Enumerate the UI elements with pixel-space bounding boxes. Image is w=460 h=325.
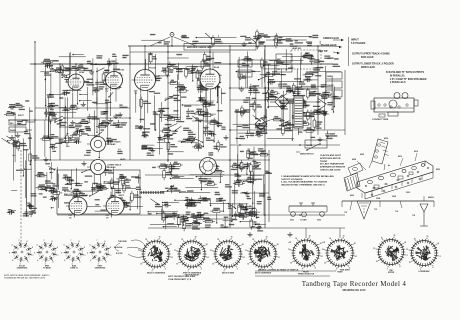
svg-text:22: 22 [354,243,356,245]
wire: dashed head bus [20,150,22,248]
tube V6 (EM71) [103,195,125,220]
wire: wafer stub 2 [339,228,341,238]
svg-text:CHECK LINE CORD: CHECK LINE CORD [320,170,341,172]
svg-text:6: 6 [64,245,65,247]
svg-text:712: 712 [374,209,377,211]
svg-text:RED TIP: RED TIP [318,50,328,53]
switch S1a [18,113,70,123]
ground 2 [108,118,113,123]
svg-text:BIAS OSC: BIAS OSC [64,193,74,196]
svg-text:7: 7 [387,268,388,270]
svg-text:5 K POLDER: 5 K POLDER [351,42,366,45]
svg-text:200A: 200A [376,197,381,200]
junction 10 [317,45,319,47]
svg-text:P2 BASE: P2 BASE [43,267,51,270]
lead black [321,44,342,48]
wire: V1 cath [72,93,74,118]
svg-text:1: 1 [244,257,245,259]
svg-text:1: 1 [111,255,112,257]
rotary switch wafer TRK [373,235,408,274]
junction 20 [299,214,301,216]
svg-text:19: 19 [159,236,161,238]
relay box 2 [276,64,292,72]
note block center [281,175,334,186]
svg-text:22: 22 [206,244,208,246]
junction 24 [264,87,266,89]
left lower network [35,162,63,209]
wire: v x=230 [229,46,231,228]
stage V1-V2 network [40,52,129,161]
wire: rail y=145 right [230,144,340,146]
ground 5 [43,157,48,162]
svg-text:1. MEASUREMENTS MADE WITH TEN: 1. MEASUREMENTS MADE WITH TEN INSTALLING [281,175,334,178]
svg-text:HEAD: HEAD [120,158,126,161]
svg-text:+15: +15 [322,242,325,244]
input jack J1 [9,120,35,125]
svg-text:1: 1 [322,256,323,258]
svg-text:AFERNATE AT REMOVE: AFERNATE AT REMOVE [320,166,346,169]
svg-text:13: 13 [245,250,247,252]
input jack J2 [9,127,32,132]
wire: rail y=130 [230,129,345,131]
wire: wafer stub 1 [305,228,307,238]
svg-text:10: 10 [409,262,411,264]
wire: rail y=88 right [230,87,318,89]
wafer small marks [288,242,325,244]
svg-text:MAGN.: MAGN. [428,196,434,199]
svg-text:2: 2 [106,262,107,264]
svg-text:TRUST: TRUST [320,161,328,163]
rotary switch wafer DECK UNDERSIDE [245,236,280,274]
svg-text:200C: 200C [406,192,411,194]
svg-text:718: 718 [412,215,415,217]
svg-text:4520: 4520 [436,168,440,171]
wire: rail y=228 [148,227,345,229]
ground 3 [138,125,143,130]
junction 3 [129,63,131,65]
svg-text:7: 7 [97,240,98,242]
junction 12 [167,159,169,161]
svg-text:SELEN: SELEN [306,145,313,147]
svg-text:10: 10 [324,262,326,264]
wire: left tall vertical [34,41,36,214]
svg-text:B.COM: B.COM [116,253,123,255]
junction 9 [264,45,266,47]
wire: v x=318 [317,46,319,135]
svg-text:13: 13 [373,248,375,250]
svg-text:6: 6 [90,245,91,247]
svg-text:9: 9 [84,247,85,249]
svg-text:2: 2 [53,262,54,264]
junction 13 [229,159,231,161]
svg-text:UNDERSIDE: UNDERSIDE [17,268,28,270]
ground 8 [223,135,228,140]
ground 11 [317,137,322,142]
svg-text:10: 10 [247,263,249,265]
svg-text:Tandberg Tape Recorder Model 4: Tandberg Tape Recorder Model 4 [302,280,407,288]
ground 12 [247,232,252,237]
wire: v x=60 [59,64,61,160]
svg-text:2. ALL VOLTAGES MEASURED TO CH: 2. ALL VOLTAGES MEASURED TO CHASSIS [281,181,327,184]
svg-text:22: 22 [242,244,244,246]
junction 5 [229,63,231,65]
junction 25 [239,144,241,146]
rotary switch wafer SELECT UNDERSIDE [138,236,173,274]
junction 11 [129,117,131,119]
svg-text:1: 1 [407,255,408,257]
svg-text:22: 22 [404,242,406,244]
relay box 5 [326,90,342,97]
ground 1 [70,120,75,125]
svg-text:MIC: MIC [10,123,14,125]
svg-text:110/220: 110/220 [327,85,333,87]
junction 2 [95,63,97,65]
svg-text:16: 16 [295,238,297,240]
relay box 1 [276,54,292,62]
svg-text:UNDERSIDE: UNDERSIDE [95,268,106,270]
svg-text:2001: 2001 [290,220,294,222]
amplifier caption strip [184,44,256,51]
svg-text:1: 1 [440,256,441,258]
wire: osc box [57,170,140,214]
svg-text:MAINS: MAINS [327,75,334,78]
svg-text:PB HEAD: PB HEAD [107,166,116,169]
svg-text:4516: 4516 [414,150,418,153]
svg-text:13: 13 [322,249,324,251]
svg-text:9: 9 [32,247,33,249]
svg-text:1: 1 [33,255,34,257]
wire: rect links [255,102,294,124]
rotary switch wafer DECK B VIEW [210,236,245,274]
ground 7 [157,135,162,140]
svg-text:DRAWING NO 2210: DRAWING NO 2210 [343,289,366,292]
svg-text:HEAD SW.: HEAD SW. [292,47,302,50]
svg-text:+15: +15 [288,242,291,244]
rotary switch wafer FRONT [288,235,323,275]
wire: rail y=108 left [35,107,130,109]
svg-text:8: 8 [52,241,53,243]
svg-text:INPUT: INPUT [351,38,359,42]
svg-text:5: 5 [87,252,88,254]
svg-text:5: 5 [34,252,35,254]
svg-text:10: 10 [376,261,378,263]
svg-text:22: 22 [277,244,279,246]
rotary switch wafer SWITCH UNDERSIDE [174,236,209,276]
svg-text:SPEED SELECTOR: SPEED SELECTOR [298,274,315,276]
record-playback head lower [87,160,122,175]
junction 1 [59,63,61,65]
top strip labels [141,29,320,49]
svg-text:TUBE V3: TUBE V3 [70,268,78,270]
svg-text:TOLERANCES PER DIN 168 - SEE P: TOLERANCES PER DIN 168 - SEE PARTS LIST … [4,277,45,280]
tube V4 (EL84) [197,66,220,93]
svg-text:6: 6 [12,245,13,247]
motor band network [152,162,262,196]
wire: V3 anode up [144,45,146,67]
power lower network [230,146,272,227]
svg-text:16: 16 [181,239,183,241]
svg-text:9: 9 [110,247,111,249]
svg-text:7: 7 [19,240,20,242]
ground 4 [203,125,208,130]
bracket part detail [289,203,327,222]
svg-text:2: 2 [28,262,29,264]
node: top terminal [170,33,174,37]
svg-text:1: 1 [208,257,209,259]
wafer caption rules [255,268,350,276]
svg-text:EQ.: EQ. [239,64,243,66]
junction 14 [229,129,231,131]
rotary switch wafer REAR [322,235,357,273]
svg-text:AMPLIFIER CHASSIS 2A21S: AMPLIFIER CHASSIS 2A21S [187,46,213,49]
rectifier MR2 [255,118,267,130]
junction 21 [167,51,169,53]
svg-text:EM71: EM71 [119,195,125,197]
svg-text:2: 2 [80,262,81,264]
svg-text:716: 716 [395,211,398,213]
svg-text:19: 19 [195,236,197,238]
left edge network [2,100,40,217]
ground 6 [81,161,86,166]
svg-text:16: 16 [414,238,416,240]
wire: rail y=215 [57,214,345,216]
tube socket view ECC83 [9,240,33,269]
ground 10 [9,135,14,140]
junction 15 [264,129,266,131]
title [302,280,407,292]
junction 16 [59,119,61,121]
relay box 8 [238,70,252,77]
svg-text:PB HEAD: PB HEAD [107,143,116,146]
wire: V3 cath [140,94,142,124]
svg-text:0.9: 0.9 [118,149,121,151]
note speakers [386,72,427,84]
wire: V2 cath [110,92,112,116]
svg-text:50-120 CYCLES: 50-120 CYCLES [64,191,79,193]
isometric chassis drawing [342,137,440,226]
label out lower [352,63,394,70]
lead green [323,37,344,41]
tube V1 (EF86) [65,72,85,95]
svg-text:2 P× 4 OHM "B" 8000 STRANGER: 2 P× 4 OHM "B" 8000 STRANGER [390,78,427,81]
wire: slant right [174,37,196,46]
head switch dashed box [291,47,321,69]
svg-text:ERASE: ERASE [84,154,91,157]
svg-text:SWITCH: SWITCH [64,141,72,143]
wire: terminal drop [171,37,173,47]
svg-text:DECK UNDERSIDE: DECK UNDERSIDE [255,272,272,274]
svg-text:COIA FROM PART 1,7,8: COIA FROM PART 1,7,8 [168,278,192,281]
svg-text:SEE DWG: SEE DWG [340,269,350,271]
label out upper [352,53,390,60]
svg-text:4502: 4502 [350,194,354,197]
stage V3-V4 network [135,52,227,156]
svg-text:COVER: COVER [300,220,307,222]
wire: rail y=52 mid [130,51,230,53]
output and PSU network [233,49,341,146]
svg-text:OUTPUT VOLTAGES.: OUTPUT VOLTAGES. [281,178,303,181]
svg-text:DECK B VIEW: DECK B VIEW [222,272,234,274]
svg-text:APPROVED RETOR: APPROVED RETOR [320,157,341,160]
tube V2 (ECC83) [103,69,125,93]
svg-text:4505: 4505 [360,153,364,156]
svg-text:3 PARALLELS: 3 PARALLELS [390,81,406,84]
svg-text:AT LAST TRANSFORM: AT LAST TRANSFORM [320,163,344,166]
junction 23 [229,87,231,89]
connector plug detail [371,93,418,122]
svg-text:SELECT UNDERSIDE: SELECT UNDERSIDE [147,272,166,274]
svg-text:10: 10 [140,263,142,265]
svg-text:5: 5 [61,252,62,254]
svg-text:1: 1 [58,255,59,257]
svg-text:13: 13 [288,249,290,251]
svg-text:4504: 4504 [352,158,356,161]
relay box 7 [238,60,252,67]
svg-text:CONTACT SIDE: CONTACT SIDE [372,118,389,121]
wire: power edge [240,150,269,222]
wire: head ticks [140,191,164,194]
svg-text:1: 1 [356,256,357,258]
wire: B+ bus [30,63,333,65]
tube V3 (ECC83) [132,67,157,95]
ground 9 [279,118,284,123]
svg-text:2002: 2002 [317,220,321,222]
svg-text:EL84: EL84 [214,66,220,69]
wire: V4 anode up [209,45,211,66]
svg-text:19: 19 [309,235,311,237]
svg-text:19: 19 [231,236,233,238]
svg-text:DRIVE MOTOR: DRIVE MOTOR [198,179,212,181]
mains switch [296,143,321,155]
junction 26 [299,144,301,146]
svg-text:2008: 2008 [392,196,396,198]
svg-text:8020 LEAD: 8020 LEAD [361,56,374,59]
svg-text:1: 1 [172,257,173,259]
svg-text:10: 10 [176,263,178,265]
tube socket view EF86 [34,240,58,269]
svg-text:8: 8 [27,241,28,243]
svg-text:1: 1 [85,255,86,257]
svg-text:10: 10 [212,263,214,265]
svg-text:UNLESS NOTED OTHERWISE, SEE DW: UNLESS NOTED OTHERWISE, SEE DW 11. [281,184,326,186]
svg-text:CLACKS AND DUST: CLACKS AND DUST [320,154,342,157]
record-playback head upper [87,137,121,152]
svg-text:98084 LEAD: 98084 LEAD [361,66,375,69]
svg-text:13: 13 [174,250,176,252]
svg-text:EF86: EF86 [79,72,85,74]
junction 17 [34,159,36,161]
tube V5 (ECC81) [66,195,89,220]
transformer T1 [286,88,303,135]
ground 13 [287,232,292,237]
svg-text:710: 710 [344,212,347,214]
svg-text:VIEWED LOOKING AT REAR OF SWIT: VIEWED LOOKING AT REAR OF SWITCH [258,268,299,271]
svg-text:10: 10 [290,262,292,264]
svg-text:LEFT ON RIGHT SIDE VIEW: LEFT ON RIGHT SIDE VIEW [168,276,195,278]
tube socket view EM71 [87,240,111,269]
svg-text:ECC81: ECC81 [82,195,90,197]
svg-text:BLACK LEAD: BLACK LEAD [321,44,337,47]
junction 19 [264,214,266,216]
svg-text:19: 19 [266,236,268,238]
svg-text:THE SIDE: THE SIDE [118,241,127,243]
svg-text:ECC83: ECC83 [117,70,125,72]
svg-text:4509: 4509 [384,137,388,140]
svg-text:MAINS SWITCH: MAINS SWITCH [300,153,314,156]
svg-text:9: 9 [57,247,58,249]
svg-text:19: 19 [343,235,345,237]
junction 8 [229,45,231,47]
caption bottom-left [4,275,49,280]
svg-text:8: 8 [105,241,106,243]
svg-text:8: 8 [79,241,80,243]
svg-text:16: 16 [217,239,219,241]
svg-text:19: 19 [427,236,429,238]
svg-text:13: 13 [406,249,408,251]
svg-text:13: 13 [210,250,212,252]
wire: V2 anode up [113,63,115,69]
svg-text:1: 1 [279,257,280,259]
wire: V1 anode up [75,63,77,71]
wire: V4 cath [205,92,207,123]
svg-text:4510: 4510 [398,155,402,158]
lead red [318,50,340,54]
rotary switch wafer LOWERSIDE [406,236,441,273]
wire: rail y=175 mid [145,174,265,176]
svg-text:LOWERSIDE: LOWERSIDE [419,271,431,273]
wire: v x=130 [129,46,131,160]
tube socket view EL84 [61,240,85,269]
note block right [320,154,346,172]
svg-text:16: 16 [329,238,331,240]
svg-text:5: 5 [9,252,10,254]
junction 6 [264,63,266,65]
svg-text:IN PARALLEL: IN PARALLEL [390,74,406,77]
relay box 3 [326,72,342,79]
relay box 4 [326,81,342,88]
wire: v x=265 [264,46,266,228]
svg-text:FUSE: FUSE [327,94,333,96]
wire: v x=168 [167,46,169,162]
wire: rail y=160 [35,159,270,161]
wire: HT top bus [128,45,333,47]
wire: in rail y=120 [8,119,55,121]
svg-text:RADIO: RADIO [10,129,17,132]
relay box 6 [305,140,327,148]
wafer leaders [114,240,146,257]
wire: rail y=100 [230,99,294,101]
svg-text:16: 16 [145,239,147,241]
rectifier MR1 [275,95,289,109]
svg-text:22: 22 [170,244,172,246]
svg-text:7: 7 [44,240,45,242]
junction 4 [167,63,169,65]
svg-text:ECC83: ECC83 [149,68,157,70]
label heads area [64,138,126,161]
svg-text:6: 6 [37,245,38,247]
svg-text:13: 13 [138,250,140,252]
svg-text:B IN POLDER "B" BOTH OUTPUTS: B IN POLDER "B" BOTH OUTPUTS [386,72,425,74]
junction 18 [229,214,231,216]
svg-text:19: 19 [394,235,396,237]
svg-text:UPPER: UPPER [388,272,395,274]
caption left [168,276,195,281]
wire: slant left [150,37,170,46]
svg-text:GREEN LEAD: GREEN LEAD [323,37,339,40]
bias oscillator network [62,168,143,213]
wire: grid line y=118 [70,117,130,119]
lower rail network [148,196,264,232]
